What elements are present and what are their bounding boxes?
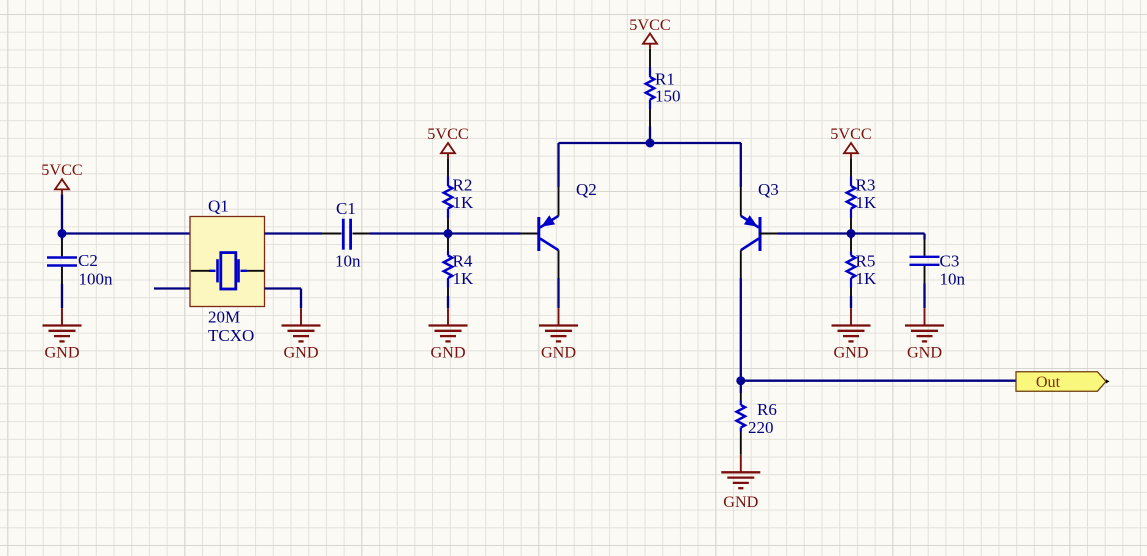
svg-text:GND: GND [44,344,79,362]
svg-text:Out: Out [1036,373,1061,391]
svg-text:Q1: Q1 [208,197,229,216]
svg-text:GND: GND [541,344,576,362]
svg-text:20M: 20M [208,308,240,327]
svg-text:Q3: Q3 [758,180,779,199]
svg-text:10n: 10n [940,270,966,289]
svg-text:GND: GND [430,344,465,362]
svg-text:10n: 10n [335,252,361,271]
svg-text:100n: 100n [79,270,114,289]
svg-text:220: 220 [748,418,774,437]
svg-text:Q2: Q2 [576,180,597,199]
svg-text:150: 150 [655,87,681,106]
svg-text:C1: C1 [336,199,356,218]
svg-text:5VCC: 5VCC [629,16,670,34]
svg-text:GND: GND [283,344,318,362]
svg-text:5VCC: 5VCC [41,161,82,179]
svg-text:5VCC: 5VCC [427,125,468,143]
svg-text:GND: GND [833,344,868,362]
svg-text:C2: C2 [78,251,98,270]
svg-text:5VCC: 5VCC [830,125,871,143]
svg-text:1K: 1K [453,269,475,288]
svg-text:R2: R2 [453,176,473,195]
svg-text:R6: R6 [757,400,777,419]
svg-text:1K: 1K [453,193,475,212]
svg-text:C3: C3 [940,252,960,271]
svg-text:R4: R4 [453,252,473,271]
svg-text:GND: GND [907,344,942,362]
svg-text:TCXO: TCXO [208,326,254,345]
svg-text:1K: 1K [856,193,878,212]
svg-text:GND: GND [723,493,758,511]
svg-text:R5: R5 [856,252,876,271]
svg-text:1K: 1K [856,269,878,288]
svg-text:R3: R3 [856,176,876,195]
